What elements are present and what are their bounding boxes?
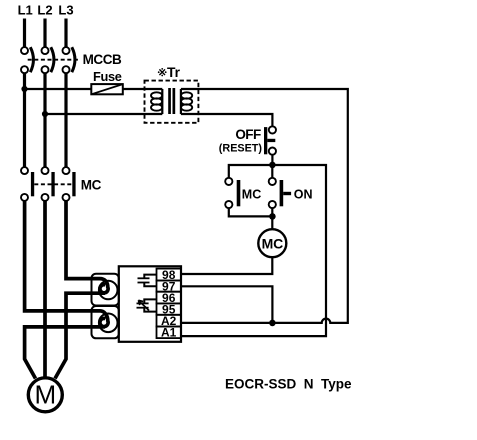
svg-text:MC: MC <box>242 187 261 201</box>
svg-text:EOCR-SSD N Type: EOCR-SSD N Type <box>225 377 352 392</box>
svg-text:MC: MC <box>81 178 102 193</box>
svg-text:A1: A1 <box>161 326 177 340</box>
svg-text:L3: L3 <box>58 3 73 18</box>
svg-text:MCCB: MCCB <box>83 52 122 67</box>
svg-text:L1: L1 <box>18 3 33 18</box>
svg-text:Tr: Tr <box>167 65 181 80</box>
svg-text:Fuse: Fuse <box>93 69 122 84</box>
svg-text:MC: MC <box>262 235 283 251</box>
svg-text:M: M <box>34 380 56 410</box>
svg-text:(RESET): (RESET) <box>219 142 263 154</box>
svg-text:L2: L2 <box>37 3 52 18</box>
svg-text:OFF: OFF <box>235 127 261 142</box>
svg-text:ON: ON <box>294 187 313 201</box>
